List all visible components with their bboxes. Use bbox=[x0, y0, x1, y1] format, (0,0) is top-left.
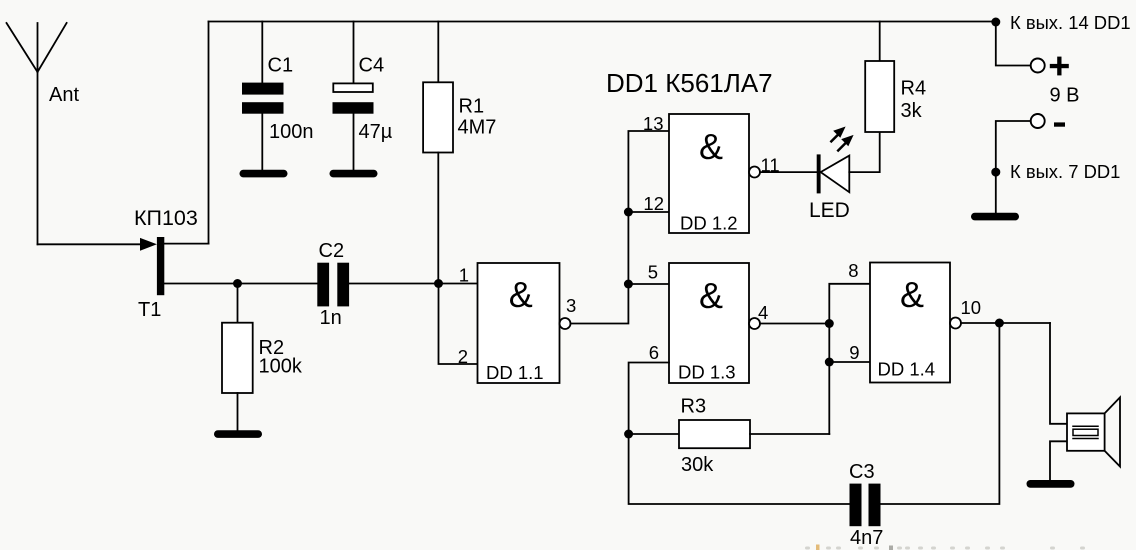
LED diode bbox=[817, 154, 850, 193]
wire C3 right to output 10 node bbox=[881, 323, 1000, 504]
wire LED to R4 bbox=[849, 132, 879, 172]
svg-text:1n: 1n bbox=[320, 307, 342, 329]
junction R3 left bbox=[624, 430, 633, 439]
wire to speaker top terminal bbox=[1050, 323, 1067, 424]
node B junction pin1/pin2/R1 bbox=[434, 279, 443, 288]
plus sign bbox=[1050, 57, 1069, 76]
svg-text:R4: R4 bbox=[901, 78, 927, 100]
junction output 4 bbox=[825, 319, 834, 328]
wire pin 9 bbox=[829, 361, 870, 363]
wire rail left drop to T1 drain bbox=[208, 22, 210, 244]
capacitor C3 bbox=[850, 484, 881, 527]
resistor R2 bbox=[222, 284, 253, 431]
wire output 3 to middle column bbox=[571, 131, 670, 324]
svg-text:КП103: КП103 bbox=[134, 206, 198, 230]
resistor R1 bbox=[423, 22, 453, 284]
svg-text:К вых. 7 DD1: К вых. 7 DD1 bbox=[1010, 161, 1120, 182]
wire pin 5 bbox=[628, 283, 669, 285]
wire right column pin8 to R3 bbox=[829, 284, 870, 434]
wire pin 6 to R3/C3 net bbox=[629, 363, 850, 505]
svg-text:DD 1.1: DD 1.1 bbox=[486, 362, 544, 383]
svg-text:T1: T1 bbox=[138, 299, 161, 321]
terminal - circle bbox=[1031, 114, 1045, 128]
wire R3 right lead bbox=[750, 433, 829, 435]
svg-text:13: 13 bbox=[643, 113, 664, 134]
svg-text:DD1 К561ЛА7: DD1 К561ЛА7 bbox=[606, 68, 773, 98]
capacitor C1 bbox=[242, 22, 284, 171]
svg-text:6: 6 bbox=[649, 342, 659, 363]
svg-text:30k: 30k bbox=[681, 454, 714, 476]
junction pin 5 bbox=[624, 280, 633, 289]
junction pin 9 bbox=[825, 358, 834, 367]
svg-text:4: 4 bbox=[758, 302, 768, 323]
resistor R3 bbox=[679, 420, 750, 448]
transistor T1 КП103 bbox=[140, 237, 209, 295]
wire output 4 to right column bbox=[760, 323, 829, 325]
svg-text:&: & bbox=[699, 275, 723, 316]
svg-text:&: & bbox=[900, 274, 924, 315]
svg-text:4M7: 4M7 bbox=[458, 117, 497, 139]
minus sign bbox=[1054, 122, 1065, 126]
svg-text:R1: R1 bbox=[459, 96, 485, 118]
op-amp gate DD1.4 bbox=[870, 263, 961, 383]
junction rail end bbox=[991, 18, 1000, 27]
svg-text:К вых. 14 DD1: К вых. 14 DD1 bbox=[1010, 12, 1131, 33]
svg-text:DD 1.3: DD 1.3 bbox=[678, 362, 736, 383]
svg-text:9: 9 bbox=[849, 342, 859, 363]
wire speaker bottom terminal to ground bbox=[1050, 441, 1067, 480]
svg-text:DD 1.2: DD 1.2 bbox=[680, 213, 738, 234]
svg-text:5: 5 bbox=[648, 262, 658, 283]
LED light arrow 1 bbox=[831, 127, 845, 142]
LED light arrow 2 bbox=[838, 135, 853, 151]
op-amp gate DD1.2 bbox=[669, 114, 760, 233]
svg-text:3k: 3k bbox=[901, 100, 923, 122]
op-amp gate DD1.3 bbox=[669, 263, 760, 383]
svg-text:3: 3 bbox=[566, 295, 576, 316]
capacitor C2 bbox=[317, 263, 349, 307]
junction minus wire bbox=[991, 168, 1000, 177]
svg-text:4n7: 4n7 bbox=[850, 527, 883, 549]
svg-text:100k: 100k bbox=[259, 356, 303, 378]
node A junction T1/R2 bbox=[233, 279, 242, 288]
svg-text:8: 8 bbox=[848, 260, 858, 281]
svg-text:12: 12 bbox=[643, 193, 664, 214]
svg-text:C1: C1 bbox=[268, 55, 294, 77]
svg-text:10: 10 bbox=[961, 297, 982, 318]
svg-text:C4: C4 bbox=[359, 55, 385, 77]
wire top rail bbox=[209, 21, 996, 23]
svg-text:2: 2 bbox=[458, 346, 468, 367]
capacitor C4 electrolytic bbox=[333, 22, 374, 171]
ground under speaker bbox=[1027, 480, 1075, 488]
resistor R4 bbox=[865, 22, 894, 133]
speaker bbox=[1067, 397, 1120, 466]
wire output 11 to LED bbox=[760, 171, 817, 173]
junction output 10 bbox=[995, 319, 1004, 328]
svg-text:&: & bbox=[509, 274, 533, 315]
svg-text:1: 1 bbox=[459, 265, 469, 286]
svg-text:&: & bbox=[699, 126, 723, 167]
antenna Ant bbox=[7, 23, 67, 244]
svg-text:LED: LED bbox=[809, 199, 850, 222]
svg-text:C2: C2 bbox=[319, 240, 345, 262]
svg-text:47µ: 47µ bbox=[359, 121, 393, 143]
op-amp gate DD1.1 bbox=[478, 263, 571, 383]
ground under R2 bbox=[214, 430, 262, 438]
wire output 10 bbox=[961, 322, 1050, 324]
wire R3 left lead bbox=[629, 433, 679, 435]
terminal + circle bbox=[1031, 59, 1045, 73]
wire pin 12 bbox=[628, 211, 669, 213]
ground battery minus bbox=[971, 213, 1019, 221]
svg-text:Ant: Ant bbox=[49, 84, 79, 106]
wire node B to pin 2 bbox=[439, 284, 478, 365]
svg-text:100n: 100n bbox=[269, 121, 314, 143]
wire - terminal to ground bbox=[996, 121, 1031, 213]
svg-text:9 В: 9 В bbox=[1050, 84, 1080, 106]
svg-text:R3: R3 bbox=[681, 396, 707, 418]
wire antenna to T1 gate bbox=[38, 243, 142, 245]
wire rail end to + terminal bbox=[996, 22, 1031, 66]
junction pin 12 bbox=[624, 208, 633, 217]
svg-text:C3: C3 bbox=[849, 461, 875, 483]
ground under C1 bbox=[240, 170, 288, 178]
svg-text:DD 1.4: DD 1.4 bbox=[878, 359, 936, 380]
wire C2 to node A bbox=[349, 283, 477, 285]
watermark specks bottom bbox=[805, 545, 1085, 550]
wire T1 source row bbox=[164, 283, 317, 285]
ground under C4 bbox=[330, 170, 378, 178]
